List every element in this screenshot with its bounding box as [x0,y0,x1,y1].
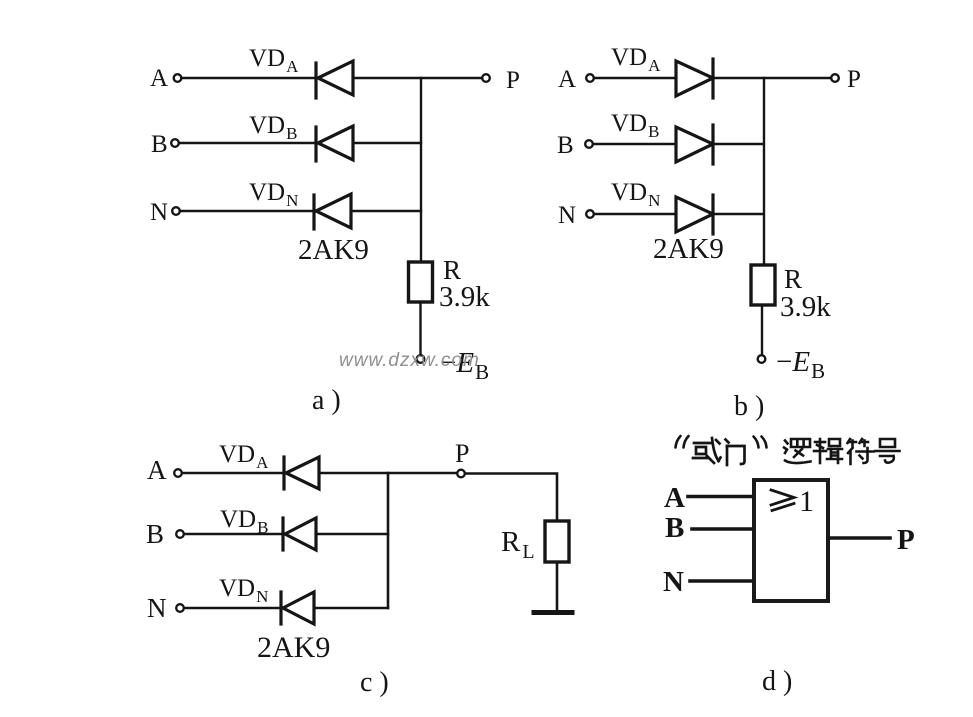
title quote close [754,437,767,448]
svg-text:d ): d ) [762,666,792,697]
svg-text:N: N [558,202,576,229]
label -EB (fig b) [776,346,825,383]
wire: resistor to EB terminal (fig b) [761,305,763,355]
wire: diode VDA to terminal P (fig a) [353,77,482,79]
wire: input B (fig d) [692,527,754,531]
wire: B terminal to diode VDB (fig b) [593,143,676,145]
ground (fig c) [534,610,572,615]
wire: A terminal to diode VDA (fig a) [182,77,317,79]
svg-text:A: A [150,65,168,92]
input terminal B (fig a) [171,139,179,147]
svg-text:b ): b ) [734,391,764,422]
diode VDB (fig c) [283,518,316,550]
diode VDA label (fig c) [219,441,269,472]
wire: diode VDB to junction (fig c) [316,533,388,536]
diode type label 2AK9 (fig a) [298,234,369,266]
diode VDN label (fig b) [611,179,660,210]
diode VDA (fig a) [316,61,353,98]
svg-text:N: N [150,199,168,226]
input terminal A (fig b) [586,74,594,82]
wire: diode VDB to junction (fig b) [713,143,763,145]
svg-text:3.9k: 3.9k [439,281,490,313]
svg-text:A: A [664,482,685,514]
wire: N terminal to diode VDN (fig b) [594,213,676,215]
diode VDA label (fig a) [249,45,299,76]
resistor R (fig a) [409,262,433,302]
svg-text:VDA: VDA [219,441,269,472]
diode VDN (fig b) [676,195,713,234]
svg-text:VDN: VDN [249,179,298,210]
svg-text:VDB: VDB [611,110,659,141]
svg-text:A: A [147,455,167,485]
svg-text:B: B [557,132,574,159]
svg-text:2AK9: 2AK9 [653,233,724,265]
OR gate box (fig d) [754,480,828,601]
diode VDA (fig b) [676,59,713,98]
node A label (fig c) [147,455,167,485]
node P label (fig a) [506,67,520,94]
node P label (fig c) [455,439,469,468]
wire: diode VDN to junction (fig b) [713,213,763,215]
svg-text:VDB: VDB [220,506,268,537]
svg-text:2AK9: 2AK9 [257,631,330,664]
input terminal B (fig c) [176,530,184,538]
diode VDB label (fig a) [249,112,297,143]
title character HUO (or) [693,438,721,463]
wire: input N (fig d) [690,579,754,583]
svg-text:P: P [455,439,469,468]
wire: output P (fig d) [830,536,890,540]
svg-text:P: P [506,67,520,94]
input terminal N (fig b) [586,210,594,218]
label -EB (fig a) [440,347,489,384]
diode type label 2AK9 (fig c) [257,631,330,664]
node A label (fig a) [150,65,168,92]
output terminal P (fig b) [831,74,839,82]
output terminal P (fig c) [457,470,465,478]
svg-text:−EB: −EB [776,346,825,383]
svg-text:A: A [558,66,576,93]
svg-text:P: P [847,66,861,93]
svg-text:N: N [663,566,684,598]
wire: B terminal to diode VDB (fig c) [184,533,283,536]
diode VDA (fig c) [284,457,319,489]
input terminal N (fig c) [176,604,184,612]
node B label (fig d) [665,512,684,544]
node P label (fig b) [847,66,861,93]
svg-text:a ): a ) [312,385,341,416]
wire: diode VDA to terminal P (fig b) [713,77,831,79]
title character MEN (gate) [726,440,745,466]
svg-text:VDN: VDN [611,179,660,210]
OR gate symbol >=1 (fig d) [771,490,794,511]
svg-text:P: P [897,524,915,556]
diode VDN label (fig c) [219,575,268,606]
diode type label 2AK9 (fig b) [653,233,724,265]
diode VDA label (fig b) [611,44,661,75]
node N label (fig b) [558,202,576,229]
title character FU (symbol-1) [848,439,874,464]
terminal -EB (fig b) [758,355,766,363]
svg-text:B: B [151,131,168,158]
svg-text:VDN: VDN [219,575,268,606]
diode VDN (fig c) [281,592,314,624]
svg-text:B: B [665,512,684,544]
node A label (fig d) [664,482,685,514]
caption b) [734,391,764,422]
load resistor RL label (fig c) [501,526,535,563]
wire: diode VDN to junction (fig a) [351,210,421,212]
svg-text:RL: RL [501,526,535,563]
node B label (fig b) [557,132,574,159]
wire: N terminal to diode VDN (fig a) [180,210,314,212]
svg-text:3.9k: 3.9k [780,291,831,323]
node N label (fig d) [663,566,684,598]
resistor R (fig b) [751,265,775,305]
wire: resistor to EB terminal (fig a) [419,302,421,355]
svg-text:N: N [147,593,167,623]
watermark [339,350,480,371]
resistor R label (fig b) [784,264,802,294]
wire: diode VDN to junction (fig c) [314,607,388,610]
wire: N terminal to diode VDN (fig c) [184,607,281,610]
diode VDB label (fig b) [611,110,659,141]
diode VDB label (fig c) [220,506,268,537]
load resistor RL (fig c) [545,521,569,562]
node B label (fig c) [146,519,164,549]
resistor value 3.9k (fig a) [439,281,490,313]
input terminal A (fig a) [174,74,182,82]
node P label (fig d) [897,524,915,556]
input terminal A (fig c) [174,469,182,477]
wire: P to load resistor corner (fig c) [465,474,557,522]
wire: common junction vertical (fig c) [387,473,390,608]
svg-text:VDB: VDB [249,112,297,143]
diode VDB (fig a) [316,126,353,161]
input terminal B (fig b) [585,140,593,148]
svg-text:VDA: VDA [611,44,661,75]
wire: diode VDB to junction (fig a) [353,142,421,144]
wire: common junction vertical (fig b) [763,78,765,265]
title character LUO (logic-1) [784,439,811,463]
wire: input A (fig d) [688,495,754,499]
caption d) [762,666,792,697]
resistor R label (fig a) [443,255,461,285]
wire: common junction vertical (fig a) [420,78,422,262]
wire: A terminal to diode VDA (fig c) [182,472,284,475]
svg-text:c ): c ) [360,667,389,698]
diode VDN (fig a) [314,194,351,229]
svg-text:B: B [146,519,164,549]
svg-text:2AK9: 2AK9 [298,234,369,266]
diode VDB (fig b) [676,125,713,164]
caption c) [360,667,389,698]
title quote open [676,436,689,448]
caption a) [312,385,341,416]
svg-text:www.dzxw.com: www.dzxw.com [339,350,480,371]
wire: diode VDA to terminal P (fig c) [319,472,457,475]
input terminal N (fig a) [172,207,180,215]
output terminal P (fig a) [482,74,490,82]
title character JI (logic-2) [814,439,842,463]
resistor value 3.9k (fig b) [780,291,831,323]
svg-text:1: 1 [799,485,814,518]
node A label (fig b) [558,66,576,93]
node B label (fig a) [151,131,168,158]
node N label (fig c) [147,593,167,623]
svg-text:VDA: VDA [249,45,299,76]
node N label (fig a) [150,199,168,226]
diode VDN label (fig a) [249,179,298,210]
title character HAO (symbol-2) [876,439,900,463]
terminal -EB (fig a) [417,355,425,363]
svg-text:R: R [784,264,802,294]
wire: resistor RL to ground (fig c) [556,562,559,610]
wire: B terminal to diode VDB (fig a) [179,142,316,144]
wire: A terminal to diode VDA (fig b) [594,77,676,79]
